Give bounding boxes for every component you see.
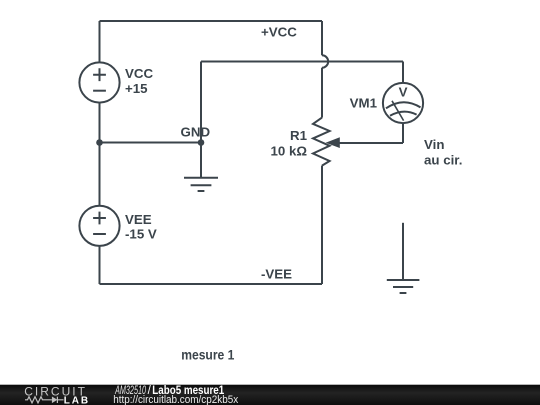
- V1 plus sign: [93, 68, 106, 81]
- svg-text:10 kΩ: 10 kΩ: [270, 143, 307, 158]
- ground symbol GND stem: [200, 143, 202, 178]
- potentiometer R1 zigzag: [313, 118, 330, 166]
- voltmeter VM1 body: [383, 83, 423, 123]
- svg-text:+VCC: +VCC: [261, 24, 297, 39]
- VM1 needle: [392, 101, 404, 121]
- svg-text:R1: R1: [290, 128, 308, 143]
- svg-text:LAB: LAB: [64, 396, 88, 405]
- R1 wiper arrowhead: [326, 137, 340, 148]
- V1 minus sign: [93, 90, 106, 92]
- ground symbol right stem: [402, 223, 404, 280]
- ground symbol GND bars: [184, 178, 218, 191]
- wire hop over mid rail: [322, 55, 328, 67]
- svg-text:-VEE: -VEE: [261, 266, 292, 281]
- V2 plus sign: [93, 212, 106, 225]
- svg-text:VCC: VCC: [125, 66, 153, 81]
- footer bar: [0, 385, 540, 405]
- wire left upper (top rail to V1 +): [99, 21, 101, 62]
- svg-text:+15: +15: [125, 81, 148, 96]
- wire V2 minus to bottom rail: [99, 246, 101, 284]
- logo zigzag and diode glyph: [25, 397, 64, 403]
- wire right top (hop to top rail): [321, 21, 323, 55]
- junction dot left GND rail: [96, 139, 103, 146]
- svg-text:VEE: VEE: [125, 212, 152, 227]
- wire mid rail (GND node to VM1): [201, 61, 403, 63]
- svg-text:V: V: [399, 85, 408, 100]
- svg-text:Vin: Vin: [424, 137, 444, 152]
- svg-text:VM1: VM1: [350, 95, 378, 110]
- svg-text:GND: GND: [181, 125, 211, 140]
- ground symbol right bars: [387, 280, 420, 293]
- wire VM1 top lead: [402, 62, 404, 84]
- VM1 scale arcs: [386, 102, 421, 116]
- wire top rail +VCC: [100, 20, 323, 22]
- junction dot GND node: [198, 139, 205, 146]
- wire GND rail horizontal: [100, 142, 202, 144]
- wire VM1 bottom lead: [402, 123, 404, 143]
- wire mid-left vertical down to GND node: [200, 62, 202, 143]
- voltage source V1 VCC body: [79, 62, 119, 102]
- wire wiper to VM1: [339, 142, 403, 144]
- svg-text:au cir.: au cir.: [424, 153, 462, 168]
- voltage source V2 VEE body: [79, 206, 119, 246]
- svg-text:mesure 1: mesure 1: [181, 348, 235, 363]
- wire GND rail to V2 plus: [99, 143, 101, 206]
- svg-text:-15 V: -15 V: [125, 227, 157, 242]
- svg-text:http://circuitlab.com/cp2kb5x: http://circuitlab.com/cp2kb5x: [113, 394, 238, 405]
- V2 minus sign: [93, 233, 106, 235]
- wire V1 minus to GND rail: [99, 103, 101, 143]
- wire right lower (bottom rail to R1): [321, 166, 323, 284]
- wire right upper (R1 to hop): [321, 68, 323, 118]
- wire bottom rail -VEE: [100, 283, 323, 285]
